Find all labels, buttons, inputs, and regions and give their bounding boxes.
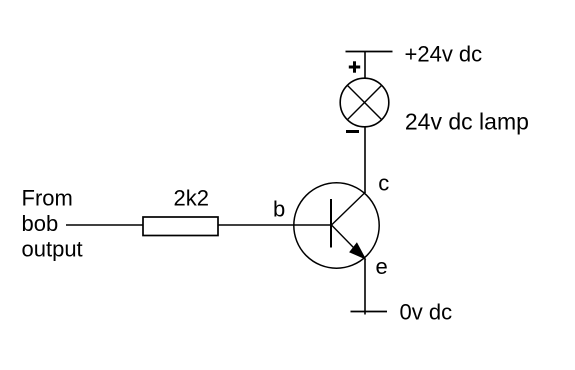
lamp LP1 cross line 2: [347, 85, 381, 119]
wire emitter to 0v rail: [364, 259, 366, 315]
transistor Q1 base bar: [330, 199, 332, 248]
transistor Q1 emitter stroke: [332, 225, 365, 259]
power rail +24v bar: [346, 51, 393, 53]
svg-text:0v dc: 0v dc: [400, 300, 453, 325]
svg-text:c: c: [378, 171, 389, 196]
lamp LP1 cross line 1: [347, 85, 381, 119]
wire lamp to collector: [364, 127, 366, 193]
plus polarity mark: [349, 61, 360, 72]
transistor Q1 emitter arrowhead: [350, 244, 364, 259]
transistor Q1 body circle: [294, 183, 379, 268]
transistor Q1 collector stroke: [332, 192, 366, 225]
resistor R1 body: [143, 217, 218, 236]
svg-text:From: From: [22, 186, 73, 211]
svg-text:+24v dc: +24v dc: [405, 42, 483, 67]
ground 0v rail bar: [351, 311, 388, 313]
svg-text:24v dc lamp: 24v dc lamp: [405, 108, 529, 134]
svg-text:e: e: [376, 254, 388, 279]
wire bob output to resistor R1: [66, 224, 143, 226]
svg-text:2k2: 2k2: [174, 185, 209, 210]
wire resistor R1 to base: [218, 224, 331, 226]
svg-text:bob: bob: [22, 211, 59, 236]
wire rail to lamp: [364, 52, 366, 80]
minus polarity mark: [346, 130, 359, 133]
lamp LP1 circle: [340, 78, 389, 127]
svg-text:b: b: [273, 197, 285, 222]
svg-text:output: output: [22, 236, 83, 261]
